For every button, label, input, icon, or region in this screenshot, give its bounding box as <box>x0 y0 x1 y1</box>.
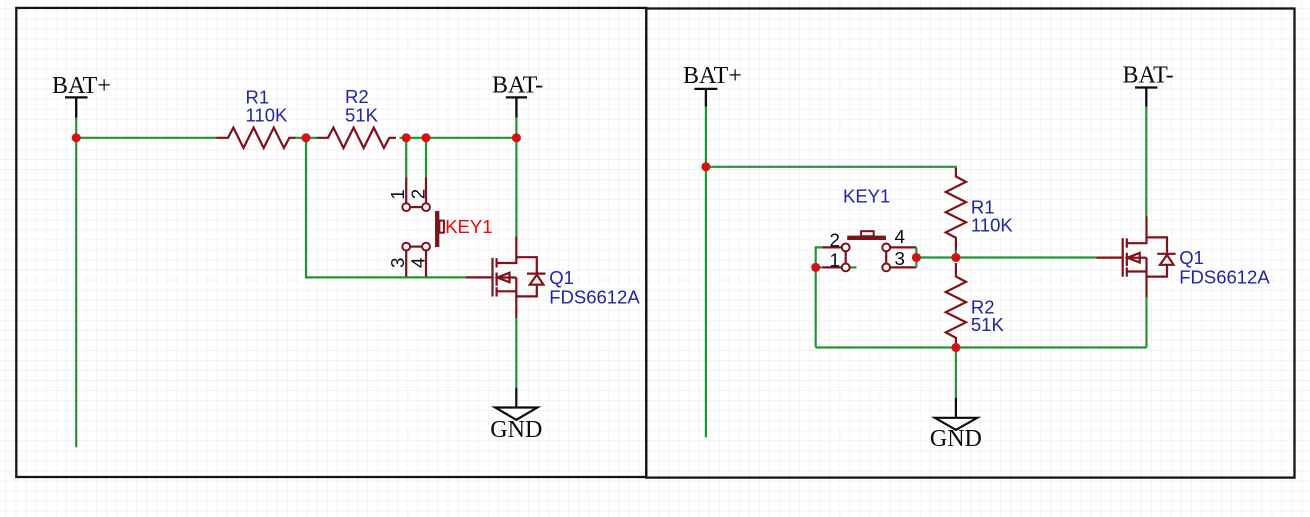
svg-text:FDS6612A: FDS6612A <box>549 286 640 307</box>
resistor R2 (right, vertical) <box>946 263 966 346</box>
push button KEY1 pin 2 lead <box>425 177 427 203</box>
wire mosfet source to bottom rail (right) <box>1145 297 1147 348</box>
body diode cathode bar <box>527 273 546 275</box>
push button KEY1 actuator bar <box>435 211 439 247</box>
wire BAT- vertical (right) <box>1145 107 1147 218</box>
body diode top branch <box>516 257 537 272</box>
svg-text:GND: GND <box>930 426 982 452</box>
junction mid node (right) <box>951 253 960 262</box>
source vertical <box>515 278 517 319</box>
push button KEY1 pin 4 lead (right) <box>890 246 916 248</box>
gate lead <box>466 276 493 278</box>
junction at button right <box>912 253 921 262</box>
svg-text:110K: 110K <box>971 215 1013 236</box>
svg-text:3: 3 <box>895 248 905 269</box>
sheet 1 border (left schematic frame) <box>16 8 646 477</box>
push button KEY1 pin 4 lead <box>425 251 427 277</box>
net port BAT+ symbol <box>65 97 88 117</box>
push button KEY1 pin 3 circle <box>402 243 410 251</box>
net port BAT- symbol (right) <box>1135 88 1157 107</box>
svg-text:Q1: Q1 <box>549 267 574 288</box>
wire mid rail to gate <box>916 256 1096 258</box>
source bottom connect <box>497 290 517 292</box>
svg-text:1: 1 <box>830 249 840 270</box>
svg-text:3: 3 <box>387 258 408 268</box>
wire stub right of pin1 <box>850 266 857 268</box>
net port BAT+ symbol (right) <box>694 89 717 107</box>
wire node A down and across to button pins 3,4 and gate <box>306 138 466 278</box>
wire node B to button pin 1 <box>405 138 407 178</box>
mosfet Q1 (right) <box>1096 216 1176 298</box>
node C junction <box>421 133 430 142</box>
push button KEY1 bottom contact bar <box>410 246 422 248</box>
push button KEY1 pin 2 lead (right) <box>823 246 842 248</box>
svg-text:FDS6612A: FDS6612A <box>1179 267 1270 288</box>
arrow head <box>497 273 509 283</box>
ground triangle <box>495 408 537 420</box>
wire stub pin1 <box>816 266 823 268</box>
wire bottom node to ground (right) <box>955 348 957 399</box>
push button KEY1 pin 3 circle (right) <box>882 264 890 272</box>
arrow line <box>497 276 516 278</box>
svg-text:1: 1 <box>387 189 408 199</box>
svg-text:2: 2 <box>408 189 429 199</box>
push button KEY1 plunger <box>439 221 444 233</box>
svg-text:BAT-: BAT- <box>492 73 543 99</box>
svg-text:51K: 51K <box>345 104 379 125</box>
svg-text:Q1: Q1 <box>1179 247 1204 268</box>
resistor R1 <box>217 128 296 148</box>
push button KEY1 pin 1 lead <box>405 177 407 203</box>
wire node C to button pin 2 <box>425 138 427 178</box>
mosfet Q1 (N-channel with body diode) <box>466 236 546 318</box>
net port BAT- symbol <box>506 97 527 117</box>
wire top rail right segment <box>400 137 517 139</box>
channel segment top <box>496 258 498 267</box>
push button KEY1 pin 2 circle (right) <box>842 244 850 252</box>
junction at BAT+ <box>72 133 81 142</box>
resistor R2 <box>317 128 397 148</box>
push button KEY1 right contact bar (right) <box>885 251 887 263</box>
push button KEY1 pin 4 circle (right) <box>882 244 890 252</box>
push button KEY1 plunger (right) <box>861 231 874 236</box>
channel segment bottom <box>496 287 498 296</box>
ground symbol stem (right) <box>955 398 957 418</box>
svg-text:KEY1: KEY1 <box>843 185 890 206</box>
push button KEY1 pin 1 circle <box>402 203 410 211</box>
wire BAT+ vertical (right) <box>705 107 707 438</box>
drain connect <box>497 236 517 263</box>
push button KEY1 pin 4 circle <box>422 243 430 251</box>
svg-text:2: 2 <box>830 229 840 250</box>
svg-text:110K: 110K <box>246 104 288 125</box>
push button KEY1 pin 1 lead (right) <box>823 266 842 268</box>
wire BAT- vertical <box>515 118 517 237</box>
body diode bottom branch <box>516 285 537 297</box>
wire top rail (right) <box>706 167 956 169</box>
svg-text:51K: 51K <box>971 314 1005 335</box>
gate bar <box>491 258 493 297</box>
push button KEY1 pin 3 lead <box>405 251 407 277</box>
junction at BAT- <box>512 133 521 142</box>
push button KEY1 pin 3 lead (right) <box>890 266 916 268</box>
push button KEY1 actuator bar (right) <box>847 236 886 240</box>
junction at button left <box>811 263 820 272</box>
svg-text:KEY1: KEY1 <box>445 216 492 237</box>
wire stub under node A <box>295 137 317 139</box>
junction at BAT+ (right) <box>701 162 710 171</box>
sheet 2 border (right schematic frame) <box>646 9 1294 478</box>
wire top rail left segment <box>76 137 216 139</box>
node B junction <box>402 133 411 142</box>
push button KEY1 pin 1 circle (right) <box>842 264 850 272</box>
wire button left branch <box>816 247 823 347</box>
wire mosfet source to ground <box>515 318 517 388</box>
junction bottom node (right) <box>951 343 960 352</box>
wire bottom rail <box>816 346 1147 348</box>
wire BAT+ vertical <box>75 118 77 448</box>
svg-text:4: 4 <box>895 226 905 247</box>
push button KEY1 pin 2 circle <box>422 203 430 211</box>
push button KEY1 left contact bar (right) <box>845 251 847 263</box>
body diode triangle <box>530 275 544 285</box>
wire stub above mid node <box>955 250 957 258</box>
svg-text:BAT+: BAT+ <box>52 73 111 99</box>
node A junction <box>301 133 310 142</box>
wire button pins 3,4 vertical <box>915 247 917 267</box>
ground symbol stem <box>515 388 517 408</box>
svg-text:4: 4 <box>408 258 429 268</box>
channel segment middle <box>496 273 498 286</box>
svg-text:BAT-: BAT- <box>1123 63 1174 89</box>
resistor R1 (right, vertical) <box>946 168 966 252</box>
ground triangle (right) <box>935 418 977 430</box>
push button KEY1 top contact bar <box>410 206 422 208</box>
svg-text:BAT+: BAT+ <box>683 63 742 89</box>
svg-text:GND: GND <box>490 417 542 443</box>
